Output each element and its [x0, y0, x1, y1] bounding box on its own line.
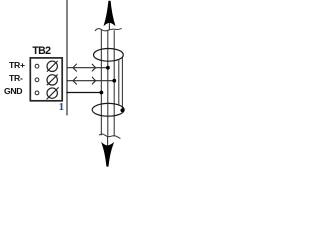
svg-text:1: 1 — [59, 101, 65, 113]
svg-text:TR-: TR- — [9, 73, 23, 83]
svg-text:GND: GND — [4, 86, 22, 96]
svg-text:TB2: TB2 — [32, 45, 51, 57]
svg-text:TR+: TR+ — [9, 60, 25, 70]
